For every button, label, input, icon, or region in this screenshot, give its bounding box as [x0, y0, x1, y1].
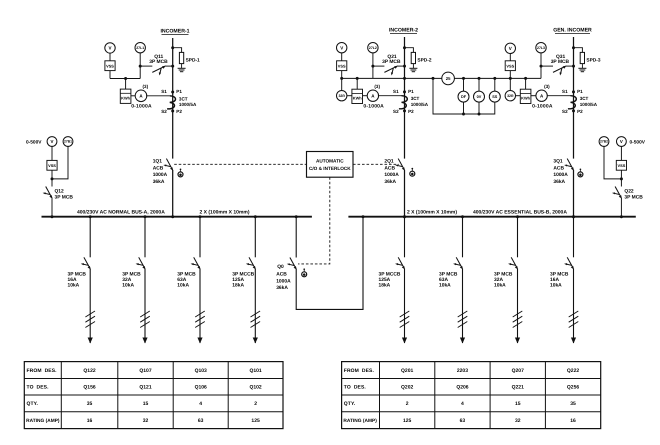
svg-text:10kA: 10kA: [439, 283, 451, 289]
svg-text:1000A: 1000A: [384, 172, 399, 178]
svg-text:36kA: 36kA: [384, 179, 396, 185]
svg-text:FROM DES.: FROM DES.: [27, 368, 58, 374]
node Q22 / bus-B: [620, 215, 623, 218]
breaker Q31 3P MCB: [553, 66, 567, 76]
wire feeder A4 upper: [254, 217, 256, 258]
load arrow A3: [197, 338, 202, 344]
load arrow A4: [253, 338, 258, 344]
wire 27L2 down: [372, 53, 374, 79]
wire dashed 1Q1 to interlock: [174, 163, 306, 165]
wire incomer-1 main: [172, 38, 174, 159]
breaker Q0 ACB 1000A tie: [287, 258, 297, 270]
svg-text:10kA: 10kA: [550, 283, 562, 289]
svg-text:FROM DES.: FROM DES.: [344, 368, 375, 374]
bus 400/230V AC ESSENTIAL BUS-B: [348, 216, 635, 218]
wire VSS to 32R: [341, 71, 343, 91]
svg-text:15: 15: [515, 401, 521, 407]
ground SPD-3: [578, 64, 586, 72]
relay 32R incomer-2: [337, 91, 347, 101]
wire KWh to A incomer-2: [363, 95, 368, 97]
selector VSS bus-A: [47, 160, 57, 170]
svg-text:63: 63: [198, 418, 204, 424]
svg-text:QTY.: QTY.: [27, 401, 39, 407]
node SPD tap gen: [572, 46, 575, 49]
svg-text:4: 4: [461, 401, 464, 407]
node feeder B3 / bus: [516, 215, 519, 218]
svg-text:ACB: ACB: [276, 271, 287, 277]
voltmeter V bus-A: [47, 137, 57, 147]
selector VSS gen: [505, 61, 515, 71]
svg-text:0-1000A: 0-1000A: [532, 104, 553, 110]
node Q12 / bus-A: [51, 215, 54, 218]
breaker 1Q1 ACB 1000A: [163, 159, 173, 171]
svg-text:36kA: 36kA: [153, 179, 165, 185]
surge arrester SPD-2: [411, 52, 415, 63]
breaker A3 3P MCB 63A: [191, 257, 201, 269]
wire 32R to KWh gen: [516, 95, 521, 97]
svg-text:18kA: 18kA: [232, 283, 244, 289]
wire KWh stub gen: [525, 78, 527, 89]
node tie / bus-B: [362, 215, 365, 218]
wire KWh stub incomer-2: [356, 78, 358, 89]
svg-text:Q206: Q206: [456, 385, 468, 391]
svg-text:0-500V: 0-500V: [630, 139, 646, 145]
svg-text:ACB: ACB: [553, 165, 564, 171]
relay SS: [494, 78, 496, 91]
selector VSS incomer-2: [337, 61, 347, 71]
svg-text:125A: 125A: [232, 277, 244, 283]
svg-text:27L1: 27L1: [136, 46, 144, 50]
svg-text:16: 16: [570, 418, 576, 424]
node feeder A1 / bus: [89, 215, 92, 218]
wire VSS to 32R gen: [509, 71, 511, 91]
cable marker A3: [195, 311, 205, 328]
svg-text:32R: 32R: [507, 94, 514, 98]
surge arrester SPD-3: [580, 52, 584, 63]
svg-text:0-1000A: 0-1000A: [131, 104, 152, 110]
load arrow B3: [515, 338, 520, 344]
load arrow B4: [571, 338, 576, 344]
svg-text:RATING (AMP): RATING (AMP): [343, 418, 377, 424]
svg-text:1000/5A: 1000/5A: [179, 102, 197, 107]
svg-text:INCOMER-1: INCOMER-1: [160, 29, 189, 35]
svg-text:V: V: [51, 139, 54, 144]
svg-text:3CT: 3CT: [179, 96, 188, 101]
breaker A4 3P MCCB 125A: [246, 257, 256, 269]
svg-text:S2: S2: [393, 109, 399, 114]
breaker B3 3P MCB 32A: [508, 257, 518, 269]
svg-text:Q22: Q22: [624, 188, 634, 194]
relay 27L1: [135, 43, 145, 53]
node incomer-2 / bus-B: [403, 215, 406, 218]
wire feeder A1 upper: [89, 217, 91, 258]
svg-text:Q202: Q202: [401, 385, 413, 391]
current transformer 3CT 1000/5A incomer-1: [146, 96, 175, 109]
cable marker B4: [569, 311, 579, 328]
wire Q21 to main: [373, 65, 385, 67]
wire V to VSS bus-A: [51, 146, 53, 160]
node feeder A3 / bus: [199, 215, 202, 218]
relay 27B2: [599, 137, 609, 147]
svg-text:125A: 125A: [379, 277, 391, 283]
svg-text:ACB: ACB: [384, 165, 395, 171]
svg-text:1000A: 1000A: [553, 172, 568, 178]
breaker Q12 3P MCB: [43, 187, 53, 199]
relay 0V: [478, 78, 480, 91]
svg-text:ACB: ACB: [153, 165, 164, 171]
svg-text:3P MCB: 3P MCB: [494, 271, 513, 277]
wire feeder B3 upper: [517, 217, 519, 258]
svg-text:0-500V: 0-500V: [26, 139, 42, 145]
svg-text:1Q1: 1Q1: [153, 159, 163, 165]
svg-text:Q0: Q0: [277, 264, 284, 270]
svg-text:3P MCB: 3P MCB: [551, 59, 570, 65]
svg-text:V: V: [108, 46, 111, 51]
node P2 gen: [572, 109, 575, 112]
wire 27L3 down: [540, 53, 542, 79]
node incomer-1 / bus-A: [171, 215, 174, 218]
wire tie loop: [296, 217, 363, 310]
svg-text:S1: S1: [161, 89, 167, 94]
svg-text:P2: P2: [408, 109, 414, 114]
wire VSS down bus-B: [620, 170, 622, 186]
svg-text:1000A: 1000A: [276, 278, 291, 284]
svg-text:27B2: 27B2: [600, 140, 608, 144]
wire feeder B2 lower: [462, 269, 464, 343]
motor operator 2Q1: [410, 168, 415, 176]
svg-text:Q12: Q12: [55, 188, 65, 194]
svg-text:32A: 32A: [494, 277, 503, 283]
node 27B1 join: [51, 177, 54, 180]
svg-text:27L2: 27L2: [369, 46, 377, 50]
svg-text:S2: S2: [562, 109, 568, 114]
svg-text:3P MCB: 3P MCB: [382, 59, 401, 65]
relay 32R gen: [505, 91, 515, 101]
wire feeder B2 upper: [462, 217, 464, 258]
svg-text:32: 32: [515, 418, 521, 424]
selector VSS bus-B: [616, 160, 626, 170]
wire feeder B4 lower: [573, 269, 575, 343]
wire feeder A3 upper: [199, 217, 201, 258]
svg-text:Q222: Q222: [567, 368, 579, 374]
svg-text:Q101: Q101: [249, 368, 261, 374]
svg-text:3P MCB: 3P MCB: [68, 271, 87, 277]
wire SPD-2 branch: [405, 48, 414, 53]
cable marker B1: [400, 311, 410, 328]
svg-text:Q121: Q121: [139, 385, 151, 391]
wire V to VSS bus-B: [620, 146, 622, 160]
node P1 gen: [572, 90, 575, 93]
node KWh tap incomer-1: [124, 77, 127, 80]
node KWh tap gen: [524, 77, 527, 80]
wire KWh stub: [125, 79, 127, 90]
svg-text:16A: 16A: [68, 277, 77, 283]
wire feeder A2 lower: [144, 269, 146, 343]
ground SPD-2: [409, 64, 417, 72]
voltmeter V incomer-2: [337, 43, 347, 53]
svg-text:3P MCB: 3P MCB: [149, 59, 168, 65]
svg-text:Q102: Q102: [249, 385, 261, 391]
node feeder B1 / bus: [403, 215, 406, 218]
svg-text:AUTOMATIC: AUTOMATIC: [316, 159, 344, 164]
svg-text:3P MCCB: 3P MCCB: [379, 271, 401, 277]
svg-text:15: 15: [143, 401, 149, 407]
breaker Q11 3P MCB: [152, 66, 166, 76]
relay 27L3: [536, 43, 546, 53]
cable marker A2: [140, 311, 150, 328]
node sync loop tap: [432, 77, 435, 80]
svg-text:SPD-3: SPD-3: [586, 57, 600, 63]
svg-text:Q156: Q156: [83, 385, 95, 391]
svg-text:RATING (AMP): RATING (AMP): [26, 418, 60, 424]
svg-text:63A: 63A: [177, 277, 186, 283]
breaker A2 3P MCB 32A: [136, 257, 146, 269]
wire feeder A2 upper: [144, 217, 146, 258]
meter KWh gen: [520, 89, 531, 103]
wire dashed interlock to Q0: [298, 177, 330, 264]
node V tap incomer-2: [340, 77, 343, 80]
node P2 incomer-2: [403, 109, 406, 112]
wire VSS down bus-A: [51, 170, 53, 186]
svg-text:P1: P1: [176, 89, 182, 94]
node main tap incomer-2: [403, 77, 406, 80]
svg-text:36kA: 36kA: [276, 285, 288, 291]
breaker A1 3P MCB 16A: [81, 257, 91, 269]
svg-text:(3): (3): [544, 84, 550, 89]
svg-text:Q122: Q122: [83, 368, 95, 374]
svg-text:10kA: 10kA: [177, 283, 189, 289]
svg-text:36kA: 36kA: [553, 179, 565, 185]
load arrow A2: [142, 338, 147, 344]
svg-text:32: 32: [143, 418, 149, 424]
svg-text:32R: 32R: [338, 94, 345, 98]
wire dashed interlock to 2Q1: [353, 163, 399, 165]
node 27L2 / Q21 wire: [371, 65, 374, 68]
svg-text:Q256: Q256: [567, 385, 579, 391]
svg-text:10kA: 10kA: [68, 283, 80, 289]
wire feeder A3 lower: [199, 269, 201, 343]
svg-text:2: 2: [254, 401, 257, 407]
node tie / bus-A: [295, 215, 298, 218]
node SPD tap incomer-2: [403, 46, 406, 49]
selector VSS incomer-1: [105, 61, 115, 71]
breaker Q21 3P MCB: [384, 66, 398, 76]
wire V to VSS: [109, 53, 111, 61]
svg-text:SS: SS: [492, 95, 498, 99]
ammeter A incomer-1: [135, 90, 147, 102]
node Q11 wire / main: [171, 65, 174, 68]
svg-text:400/230V AC NORMAL BUS-A, 2000: 400/230V AC NORMAL BUS-A, 2000A: [77, 209, 165, 215]
svg-text:C/O & INTERLOCK: C/O & INTERLOCK: [309, 166, 351, 171]
svg-text:125: 125: [403, 418, 412, 424]
node SPD tap incomer-1: [171, 46, 174, 49]
wire tie from bus-A: [295, 217, 297, 258]
wire V to VSS gen: [509, 54, 511, 61]
node feeder B4 / bus: [572, 215, 575, 218]
motor operator Q0: [302, 268, 307, 276]
load arrow B1: [402, 338, 407, 344]
wire Q12 to bus: [51, 198, 53, 217]
svg-text:1000A: 1000A: [153, 172, 168, 178]
wire feeder A4 lower: [254, 269, 256, 343]
svg-text:35: 35: [570, 401, 576, 407]
wire Q11 to main: [140, 65, 152, 67]
load arrow A1: [88, 338, 93, 344]
svg-text:4: 4: [199, 401, 202, 407]
node Q31 wire / main: [572, 65, 575, 68]
wire feeder B1 lower: [404, 269, 406, 343]
table bus-B feeders: [342, 362, 601, 429]
load arrow B2: [460, 338, 465, 344]
node P2: [171, 110, 174, 113]
relay 27L2: [368, 43, 378, 53]
svg-text:3P MCB: 3P MCB: [122, 271, 141, 277]
svg-text:18kA: 18kA: [379, 283, 391, 289]
svg-text:SPD-2: SPD-2: [417, 57, 431, 63]
wire V to VSS incomer-2: [341, 53, 343, 61]
breaker 3Q1 ACB 1000A: [564, 159, 574, 171]
wire SPD-1 branch: [173, 48, 182, 53]
node feeder B2 / bus: [461, 215, 464, 218]
wire VSS down: [109, 71, 111, 79]
motor operator 3Q1: [578, 168, 583, 176]
svg-text:S2: S2: [161, 109, 167, 114]
relay DF: [463, 78, 465, 91]
svg-text:3P MCB: 3P MCB: [624, 194, 643, 200]
svg-text:V: V: [620, 139, 623, 144]
meter KWh incomer-2: [352, 89, 363, 103]
svg-text:INCOMER-2: INCOMER-2: [389, 28, 418, 34]
wire metering/sync line: [342, 77, 442, 79]
svg-text:S1: S1: [562, 89, 568, 94]
svg-text:63A: 63A: [439, 277, 448, 283]
svg-text:2203: 2203: [457, 368, 468, 374]
breaker B1 3P MCCB 125A: [395, 257, 405, 269]
surge arrester SPD-1: [179, 52, 183, 63]
motor operator 1Q1: [178, 168, 183, 176]
breaker B2 3P MCB 63A: [453, 257, 463, 269]
wire KWh to A gen: [531, 95, 536, 97]
svg-text:Q103: Q103: [195, 368, 207, 374]
node 27L3 / Q31 wire: [540, 65, 543, 68]
svg-text:3Q1: 3Q1: [553, 159, 563, 165]
node P1: [171, 91, 174, 94]
svg-text:2: 2: [406, 401, 409, 407]
svg-text:3CT: 3CT: [580, 96, 589, 101]
current transformer 3CT 1000/5A incomer-2: [378, 96, 407, 109]
ground SPD-1: [178, 64, 186, 72]
svg-text:1000/5A: 1000/5A: [580, 102, 598, 107]
svg-text:0V: 0V: [477, 95, 482, 99]
relay 27B1: [63, 137, 73, 147]
voltmeter V bus-B: [617, 137, 627, 147]
svg-text:3CT: 3CT: [411, 96, 420, 101]
svg-text:27B1: 27B1: [64, 140, 72, 144]
cable marker A1: [85, 311, 95, 328]
cable marker B3: [513, 311, 523, 328]
breaker Q22 3P MCB: [612, 187, 622, 199]
svg-text:16A: 16A: [550, 277, 559, 283]
node 27B2 join: [620, 177, 623, 180]
wire feeder B1 upper: [404, 217, 406, 258]
wire 27B1 down: [52, 146, 68, 179]
svg-text:S1: S1: [393, 89, 399, 94]
svg-text:V: V: [340, 45, 343, 50]
table bus-A feeders: [24, 362, 283, 429]
svg-text:27L3: 27L3: [537, 46, 545, 50]
voltmeter V gen: [505, 43, 515, 53]
svg-text:10kA: 10kA: [122, 283, 134, 289]
svg-text:DF: DF: [461, 95, 467, 99]
svg-text:P1: P1: [577, 89, 583, 94]
breaker B4 3P MCB 16A: [564, 257, 574, 269]
svg-text:Q106: Q106: [195, 385, 207, 391]
ammeter A gen: [536, 90, 547, 101]
svg-text:25: 25: [446, 76, 451, 81]
svg-text:GEN. INCOMER: GEN. INCOMER: [553, 28, 592, 34]
svg-text:125: 125: [251, 418, 260, 424]
svg-text:63: 63: [460, 418, 466, 424]
node Q21 wire / main: [403, 65, 406, 68]
wire feeder B4 upper: [573, 217, 575, 258]
cable marker A4: [251, 311, 261, 328]
svg-text:(3): (3): [143, 84, 149, 89]
wire Q22 to bus: [620, 198, 622, 217]
bus 400/230V AC NORMAL BUS-A: [42, 216, 312, 218]
svg-text:(3): (3): [374, 84, 380, 89]
wire sync loop: [433, 78, 495, 114]
svg-text:3P MCB: 3P MCB: [439, 271, 458, 277]
svg-text:32A: 32A: [122, 277, 131, 283]
wire 32R to KWh: [347, 95, 352, 97]
meter KWh incomer-1: [120, 89, 131, 103]
wire 27L1 down: [139, 53, 141, 79]
wire KWh to A: [131, 95, 135, 97]
wire SPD-3 branch: [574, 48, 583, 53]
svg-text:Q201: Q201: [401, 368, 413, 374]
svg-text:3P MCB: 3P MCB: [550, 271, 569, 277]
svg-text:P2: P2: [577, 109, 583, 114]
breaker 2Q1 ACB 1000A: [395, 159, 405, 171]
wire Q31 to main: [541, 65, 553, 67]
svg-text:TO DES.: TO DES.: [27, 385, 50, 391]
node 27L1 / Q11 wire: [139, 65, 142, 68]
svg-text:3P MCB: 3P MCB: [55, 194, 74, 200]
cable marker B2: [458, 311, 468, 328]
wire feeder A1 lower: [89, 269, 91, 343]
svg-text:P1: P1: [408, 89, 414, 94]
svg-text:TO DES.: TO DES.: [344, 385, 367, 391]
svg-text:1000/5A: 1000/5A: [411, 102, 429, 107]
svg-text:16: 16: [87, 418, 93, 424]
node KWh tap incomer-2: [356, 77, 359, 80]
node P1 incomer-2: [403, 90, 406, 93]
ammeter A incomer-2: [367, 90, 378, 101]
current transformer 3CT 1000/5A gen: [547, 96, 576, 109]
svg-text:2 X (100mm X 10mm): 2 X (100mm X 10mm): [200, 209, 250, 215]
svg-text:Q207: Q207: [512, 368, 524, 374]
svg-text:V: V: [509, 46, 512, 51]
node feeder A2 / bus: [144, 215, 147, 218]
wire 27B2 down: [604, 146, 621, 179]
svg-text:SPD-1: SPD-1: [186, 57, 200, 63]
voltmeter V incomer-1: [105, 43, 115, 53]
wire incomer-2 main: [404, 37, 406, 159]
wire feeder B3 lower: [517, 269, 519, 343]
svg-text:2Q1: 2Q1: [384, 159, 394, 165]
svg-text:3P MCB: 3P MCB: [177, 271, 196, 277]
svg-text:35: 35: [87, 401, 93, 407]
